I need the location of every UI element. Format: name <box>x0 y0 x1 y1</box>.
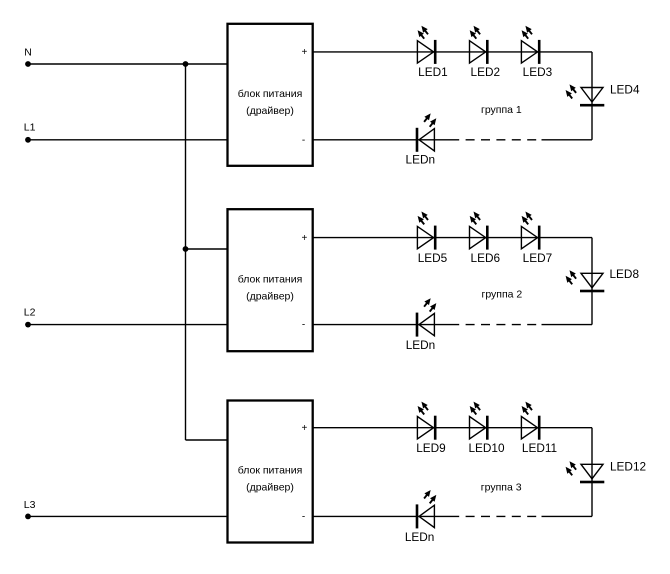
junction dot on N wire at PSU1 branch <box>183 61 189 67</box>
svg-text:+: + <box>301 47 307 58</box>
svg-text:-: - <box>302 511 305 522</box>
wire N terminal to PSU1 <box>28 63 227 65</box>
wire N bus elbow to PSU3 <box>186 439 227 441</box>
svg-text:L2: L2 <box>24 307 36 319</box>
wire PSU3 + output to LED string 3 <box>313 427 592 429</box>
svg-text:LED4: LED4 <box>610 82 640 96</box>
svg-text:LEDn: LEDn <box>406 153 436 167</box>
wire L2 terminal to PSU2 <box>28 324 227 326</box>
svg-text:LED10: LED10 <box>468 441 505 455</box>
LED LED6 <box>470 212 489 250</box>
wire LED string 3 bottom solid left segment to PSU3 - <box>313 515 459 517</box>
wire N bus branch to PSU2 <box>186 248 227 250</box>
wire PSU1 + output to LED string 1 <box>313 51 592 53</box>
svg-text:LED9: LED9 <box>416 441 446 455</box>
svg-text:(драйвер): (драйвер) <box>246 482 294 494</box>
LED LED1 <box>417 26 436 64</box>
svg-text:LED12: LED12 <box>610 459 646 473</box>
LED LEDn of group 2 <box>416 298 437 336</box>
LED LED3 <box>521 26 540 64</box>
wire LED string 2 bottom dashed segment <box>466 324 543 326</box>
svg-text:блок питания: блок питания <box>238 88 303 100</box>
LED LED10 <box>470 402 489 440</box>
wire LED string 3 bottom dashed segment <box>466 515 543 517</box>
svg-text:N: N <box>24 47 32 59</box>
svg-text:блок питания: блок питания <box>238 273 303 285</box>
svg-text:LED8: LED8 <box>610 267 640 281</box>
LED LEDn of group 1 <box>416 113 437 151</box>
wire LED string 3 bottom solid right segment <box>542 515 593 517</box>
node L3 terminal dot <box>25 514 31 520</box>
junction dot on N bus at PSU2 branch <box>183 246 189 252</box>
LED LED12 <box>566 461 605 483</box>
wire LED string 1 bottom dashed segment <box>466 139 543 141</box>
svg-text:-: - <box>302 135 305 146</box>
svg-text:(драйвер): (драйвер) <box>246 290 294 302</box>
wire L3 terminal to PSU3 <box>28 515 227 517</box>
svg-text:группа 2: группа 2 <box>482 289 523 301</box>
svg-text:(драйвер): (драйвер) <box>246 105 294 117</box>
wire LED string 1 bottom solid right segment <box>542 139 593 141</box>
LED LED11 <box>521 402 540 440</box>
svg-text:+: + <box>301 233 307 244</box>
node N terminal dot <box>25 61 31 67</box>
svg-text:LED1: LED1 <box>418 65 448 79</box>
power supply PSU2 box <box>228 209 313 351</box>
LED LED2 <box>470 26 489 64</box>
svg-text:группа 3: группа 3 <box>481 482 522 494</box>
power supply PSU3 box <box>228 401 313 543</box>
wire N bus vertical <box>185 64 187 440</box>
svg-text:LED6: LED6 <box>471 251 501 265</box>
power supply PSU1 box <box>228 24 313 166</box>
node L2 terminal dot <box>25 322 31 328</box>
LED LED9 <box>417 402 436 440</box>
svg-text:LED7: LED7 <box>523 251 553 265</box>
wire LED string 2 right vertical through LED8 <box>591 238 593 325</box>
LED LED7 <box>521 212 540 250</box>
svg-text:L3: L3 <box>24 499 36 511</box>
svg-text:LED2: LED2 <box>471 65 501 79</box>
svg-text:LEDn: LEDn <box>405 530 435 544</box>
svg-text:LED3: LED3 <box>523 65 553 79</box>
svg-text:-: - <box>302 320 305 331</box>
wire L1 terminal to PSU1 <box>28 139 227 141</box>
wire LED string 3 right vertical through LED12 <box>591 428 593 517</box>
wire LED string 1 right vertical through LED4 <box>591 52 593 140</box>
LED LED4 <box>566 84 605 106</box>
wire LED string 1 bottom solid left segment to PSU1 - <box>313 139 459 141</box>
wire PSU2 + output to LED string 2 <box>313 237 592 239</box>
LED LED5 <box>417 212 436 250</box>
svg-text:+: + <box>301 423 307 434</box>
LED LEDn of group 3 <box>416 490 437 528</box>
svg-text:LED11: LED11 <box>522 441 557 455</box>
svg-text:блок питания: блок питания <box>238 465 303 477</box>
LED LED8 <box>566 270 605 292</box>
svg-text:L1: L1 <box>24 122 36 134</box>
svg-text:LED5: LED5 <box>418 251 448 265</box>
node L1 terminal dot <box>25 137 31 143</box>
svg-text:группа 1: группа 1 <box>481 104 522 116</box>
wire LED string 2 bottom solid right segment <box>542 324 593 326</box>
svg-text:LEDn: LEDn <box>406 338 436 352</box>
wire LED string 2 bottom solid left segment to PSU2 - <box>313 324 459 326</box>
